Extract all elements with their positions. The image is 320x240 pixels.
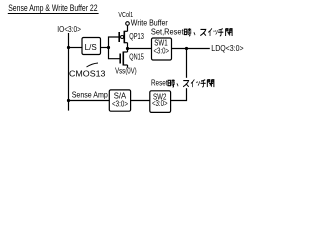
svg-text:QP13: QP13 <box>129 32 144 41</box>
svg-text:Set,Reset: Set,Reset <box>151 28 184 37</box>
svg-text:Sense Amp & Write Buffer 22: Sense Amp & Write Buffer 22 <box>8 3 97 13</box>
svg-text:<3:0>: <3:0> <box>152 99 168 108</box>
svg-text:Sense Amp: Sense Amp <box>72 91 109 100</box>
svg-text:CMOS13: CMOS13 <box>69 69 106 78</box>
svg-text:<3:0>: <3:0> <box>112 99 128 108</box>
svg-text:Write Buffer: Write Buffer <box>131 18 168 27</box>
svg-text:<3:0>: <3:0> <box>154 47 170 56</box>
svg-text:QN15: QN15 <box>129 52 144 61</box>
svg-text:IO<3:0>: IO<3:0> <box>57 25 81 34</box>
svg-text:L/S: L/S <box>85 43 97 52</box>
svg-text:Reset: Reset <box>151 79 168 88</box>
svg-text:Vss(0V): Vss(0V) <box>115 67 137 76</box>
svg-text:LDQ<3:0>: LDQ<3:0> <box>211 44 244 53</box>
